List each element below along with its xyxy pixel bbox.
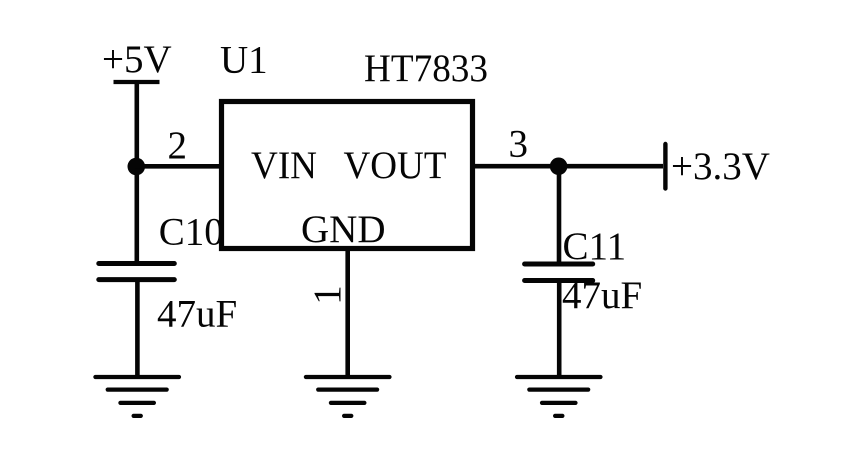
wire pin 3 to +3.3V terminal <box>475 164 663 169</box>
capacitor C10 bottom plate <box>99 277 175 282</box>
power +5V bar symbol <box>114 80 160 84</box>
capacitor C10 top plate <box>99 261 175 266</box>
wire node to C11 <box>557 166 562 264</box>
svg-text:47uF: 47uF <box>157 293 237 336</box>
svg-text:2: 2 <box>168 124 188 167</box>
svg-text:GND: GND <box>301 208 386 251</box>
ground left <box>95 377 179 416</box>
terminal +3.3V bar <box>663 144 667 189</box>
svg-text:1: 1 <box>306 285 349 305</box>
capacitor C11 top plate <box>525 262 593 267</box>
IC U1 regulator box <box>222 102 473 249</box>
svg-text:47uF: 47uF <box>562 274 642 317</box>
wire GND pin to ground <box>345 251 350 376</box>
wire +5V down to node and C10 <box>135 82 140 264</box>
svg-text:VIN: VIN <box>251 144 317 187</box>
wire C10 to ground <box>135 282 140 376</box>
node junction dot right <box>550 158 568 176</box>
capacitor C11 bottom plate <box>525 278 593 283</box>
svg-text:+3.3V: +3.3V <box>671 145 770 188</box>
ground middle <box>306 377 390 416</box>
svg-text:C11: C11 <box>563 225 627 268</box>
svg-text:3: 3 <box>509 123 529 166</box>
svg-text:+5V: +5V <box>102 38 172 81</box>
svg-text:U1: U1 <box>220 39 268 82</box>
svg-text:VOUT: VOUT <box>344 144 447 187</box>
svg-text:HT7833: HT7833 <box>364 47 488 90</box>
wire pin 2 to U1 <box>135 164 222 169</box>
svg-text:C10: C10 <box>159 210 224 253</box>
ground right <box>517 377 601 416</box>
wire C11 to ground <box>557 283 562 376</box>
node junction dot left <box>128 158 146 176</box>
